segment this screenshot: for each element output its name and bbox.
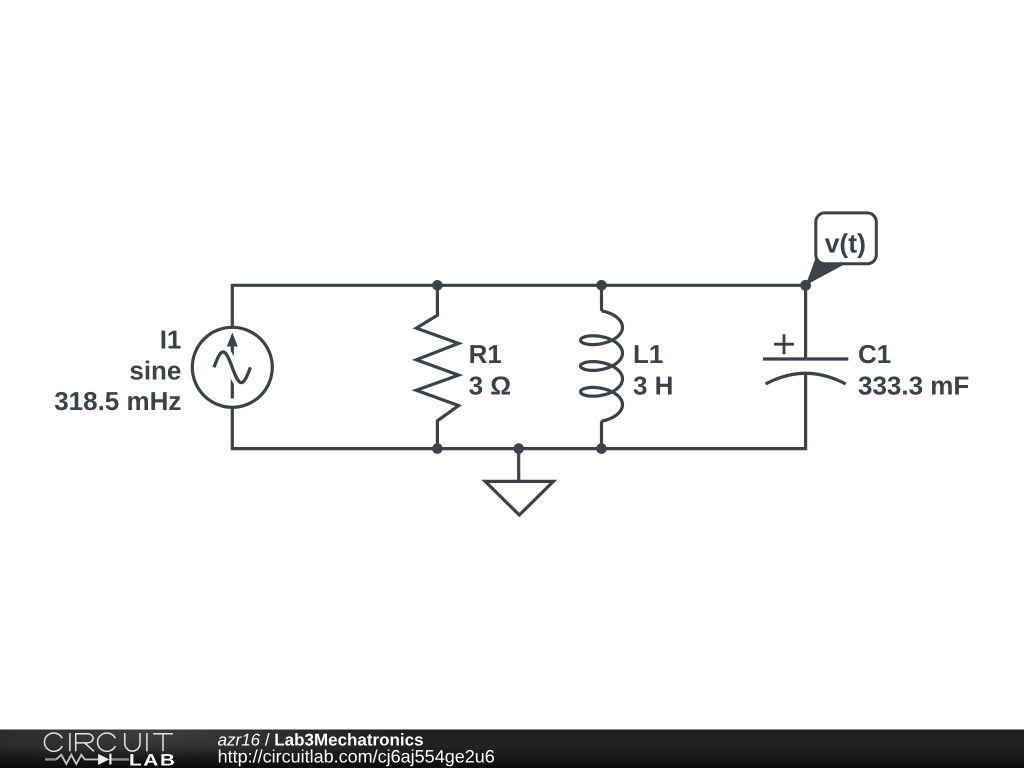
resistor R1 <box>416 285 458 448</box>
CircuitLab logo: resistor-diode glyph <box>45 755 129 764</box>
svg-text:I1: I1 <box>160 324 182 354</box>
footer bar highlight glow near logo <box>0 705 410 761</box>
current source I1 <box>192 327 272 407</box>
junction at R1 bottom <box>432 443 443 454</box>
wire: top net from I1 to node v(t) <box>232 285 805 327</box>
capacitor C1 <box>763 285 848 384</box>
svg-text:LAB: LAB <box>129 751 177 768</box>
svg-text:C1: C1 <box>858 339 891 369</box>
wire: bottom net (ground net) with C1 bottom lead <box>232 374 805 449</box>
svg-text:v(t): v(t) <box>825 229 866 259</box>
svg-text:R1: R1 <box>469 339 502 369</box>
junction at L1 bottom <box>596 443 607 454</box>
footer bar <box>0 730 1024 768</box>
svg-text:3 H: 3 H <box>633 371 673 401</box>
CircuitLab logo: CIRCUIT thin letters <box>44 733 173 751</box>
inductor L1 <box>581 285 623 448</box>
svg-text:318.5 mHz: 318.5 mHz <box>54 386 181 416</box>
node label balloon v(t) <box>806 213 877 285</box>
svg-text:http://circuitlab.com/cj6aj554: http://circuitlab.com/cj6aj554ge2u6 <box>218 746 495 766</box>
label I1 name and value: I1 / sine / 318.5 mHz <box>54 324 181 416</box>
node v(t) junction dot <box>800 280 811 291</box>
capacitor C1 polarity plus sign <box>774 334 794 354</box>
svg-text:sine: sine <box>129 355 181 385</box>
svg-text:333.3 mF: 333.3 mF <box>858 371 969 401</box>
junction at ground stub <box>513 443 524 454</box>
svg-text:3 Ω: 3 Ω <box>469 371 512 401</box>
junction at L1 top <box>596 280 607 291</box>
svg-text:L1: L1 <box>633 339 663 369</box>
ground symbol <box>485 449 553 515</box>
junction at R1 top <box>432 280 443 291</box>
